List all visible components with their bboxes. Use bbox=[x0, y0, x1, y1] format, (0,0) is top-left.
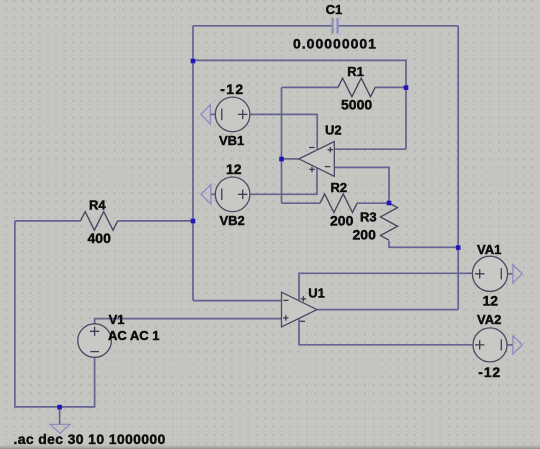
svg-text:12: 12 bbox=[483, 293, 499, 309]
svg-text:-12: -12 bbox=[220, 81, 244, 97]
VB2 minus bar bbox=[221, 189, 223, 201]
junction at R4 / left vertical bbox=[191, 219, 196, 224]
svg-text:0.00000001: 0.00000001 bbox=[293, 36, 377, 52]
wire VA1 arrow stub bbox=[508, 273, 513, 275]
wire left vertical net (inverting input of U1) bbox=[192, 26, 194, 301]
VA1 plus bbox=[475, 269, 484, 278]
svg-text:AC AC 1: AC AC 1 bbox=[108, 328, 160, 343]
junction at R2/R3 node bbox=[387, 201, 392, 206]
VB2 arrow bbox=[201, 185, 211, 205]
VA2 minus bar bbox=[500, 339, 502, 350]
wire right vertical (U1 output net) bbox=[457, 26, 459, 310]
wire U1 bottom power to VA2 bbox=[299, 318, 473, 344]
wire ground stub bbox=[59, 407, 61, 425]
wire VB1 arrow stub bbox=[210, 113, 215, 115]
junction at left vertical / y60 wire bbox=[191, 59, 196, 64]
svg-text:-12: -12 bbox=[478, 364, 501, 380]
wire top C1 right segment bbox=[339, 25, 459, 27]
resistor R2 zigzag bbox=[320, 194, 357, 213]
ground symbol bbox=[50, 424, 70, 433]
U1 inverting input mark bbox=[283, 299, 288, 301]
svg-text:200: 200 bbox=[330, 213, 354, 229]
wire R1 left lead bbox=[282, 86, 339, 88]
wire R4 left lead bbox=[15, 220, 81, 222]
U2 non-inverting input mark (top) bbox=[328, 147, 333, 152]
svg-text:R3: R3 bbox=[360, 210, 377, 225]
junction at R3 bottom / right vertical bbox=[456, 245, 461, 250]
U1 non-inverting input mark bbox=[283, 315, 288, 320]
wire left-mid vertical (U2 output net) bbox=[281, 87, 283, 203]
svg-text:400: 400 bbox=[88, 230, 112, 246]
wire VB1 to U2 top power bbox=[250, 114, 317, 150]
VB1 minus bar bbox=[221, 109, 223, 121]
wire V1 to U1 non-inverting input bbox=[95, 319, 282, 324]
svg-text:R1: R1 bbox=[347, 64, 364, 79]
voltage source VA1 body bbox=[472, 256, 507, 291]
wire U1 output bbox=[317, 309, 458, 311]
window bottom edge shading bbox=[0, 446, 540, 449]
VA2 plus bbox=[475, 340, 484, 349]
svg-text:R4: R4 bbox=[89, 198, 106, 213]
U1 V+ power mark bbox=[301, 296, 306, 301]
wire V1 bottom to ground net bbox=[15, 221, 95, 407]
svg-text:R2: R2 bbox=[331, 180, 348, 195]
svg-text:12: 12 bbox=[226, 161, 242, 177]
svg-text:VA1: VA1 bbox=[477, 242, 501, 257]
resistor R4 zigzag bbox=[81, 212, 118, 231]
VA2 arrow bbox=[513, 336, 522, 354]
V1 minus bar bbox=[90, 351, 99, 353]
svg-text:VB2: VB2 bbox=[220, 213, 245, 228]
wire U2 bottom input down to R2/R3 node bbox=[334, 167, 389, 203]
V1 plus bbox=[90, 327, 99, 336]
VB2 plus bbox=[238, 190, 247, 199]
voltage source VB1 body bbox=[78, 97, 508, 362]
op-amp U2 triangle bbox=[299, 142, 334, 177]
wire U1 inverting input bbox=[193, 300, 282, 302]
svg-text:.ac dec 30 10 1000000: .ac dec 30 10 1000000 bbox=[14, 431, 166, 447]
svg-text:V1: V1 bbox=[109, 312, 125, 327]
resistor R3 zigzag bbox=[381, 203, 398, 240]
VB1 arrow bbox=[201, 105, 211, 125]
op-amp U1 triangle bbox=[282, 292, 317, 327]
voltage source V1 body bbox=[78, 324, 112, 358]
junction at U2 output bbox=[279, 157, 284, 162]
voltage source VB2 body bbox=[215, 177, 250, 212]
U1 V- power mark bbox=[300, 320, 305, 322]
svg-text:U1: U1 bbox=[308, 286, 325, 301]
VB1 plus bbox=[238, 110, 247, 119]
wire U1 top power to VA1 bbox=[299, 273, 473, 301]
wire horizontal y=60 to R1 right bbox=[193, 60, 406, 149]
VA1 minus bar bbox=[500, 268, 502, 279]
wire R3 bottom to right vertical bbox=[389, 241, 458, 247]
wire VB2 to U2 bottom power bbox=[250, 168, 317, 194]
wire R2 left lead bbox=[282, 202, 321, 204]
wire U2 top input to R1 right bbox=[334, 148, 406, 150]
U2 V- power mark (top) bbox=[309, 147, 315, 149]
resistor R1 zigzag bbox=[338, 78, 375, 97]
wire top C1 left segment bbox=[193, 25, 332, 27]
wire R1 right lead bbox=[375, 86, 406, 88]
VA1 arrow bbox=[513, 265, 522, 283]
svg-text:C1: C1 bbox=[326, 2, 343, 17]
wire VA2 arrow stub bbox=[507, 344, 513, 346]
voltage source VA2 body bbox=[473, 328, 507, 362]
capacitor C1 plates bbox=[333, 18, 338, 34]
svg-text:U2: U2 bbox=[325, 123, 342, 138]
junction at ground node bbox=[57, 405, 62, 410]
junction at R1 right bbox=[404, 85, 409, 90]
svg-text:VA2: VA2 bbox=[477, 312, 501, 327]
svg-text:5000: 5000 bbox=[341, 97, 372, 113]
wire U2 output bbox=[282, 158, 299, 160]
U2 inverting input mark (bottom) bbox=[325, 166, 331, 168]
U2 V+ power mark (bottom) bbox=[309, 167, 315, 173]
wire R2 right lead bbox=[357, 202, 389, 204]
svg-text:VB1: VB1 bbox=[219, 133, 244, 148]
wire R4 right lead bbox=[118, 220, 193, 222]
svg-text:200: 200 bbox=[353, 227, 377, 243]
wire VB2 arrow stub bbox=[211, 193, 215, 195]
